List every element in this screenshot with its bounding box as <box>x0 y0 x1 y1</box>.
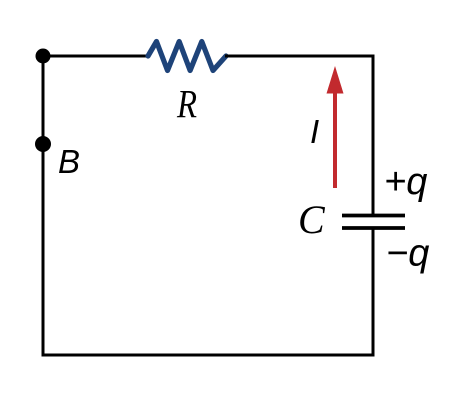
svg-text:C: C <box>298 197 326 242</box>
svg-text:−q: −q <box>386 233 429 275</box>
current arrow I head <box>327 66 344 94</box>
current arrow I shaft <box>333 91 337 188</box>
wire top-left segment <box>43 55 149 58</box>
svg-text:R: R <box>176 82 197 127</box>
svg-text:B: B <box>58 143 80 180</box>
resistor R <box>148 42 226 71</box>
junction dot top-left corner <box>36 49 51 64</box>
svg-text:+q: +q <box>384 161 427 203</box>
node B dot <box>35 136 51 152</box>
capacitor C bottom plate <box>342 226 405 230</box>
wire right lower, bottom and left segment <box>43 55 373 355</box>
wire top-right and right upper segment <box>225 56 373 215</box>
capacitor C top plate <box>342 214 405 218</box>
svg-text:I: I <box>310 113 319 150</box>
